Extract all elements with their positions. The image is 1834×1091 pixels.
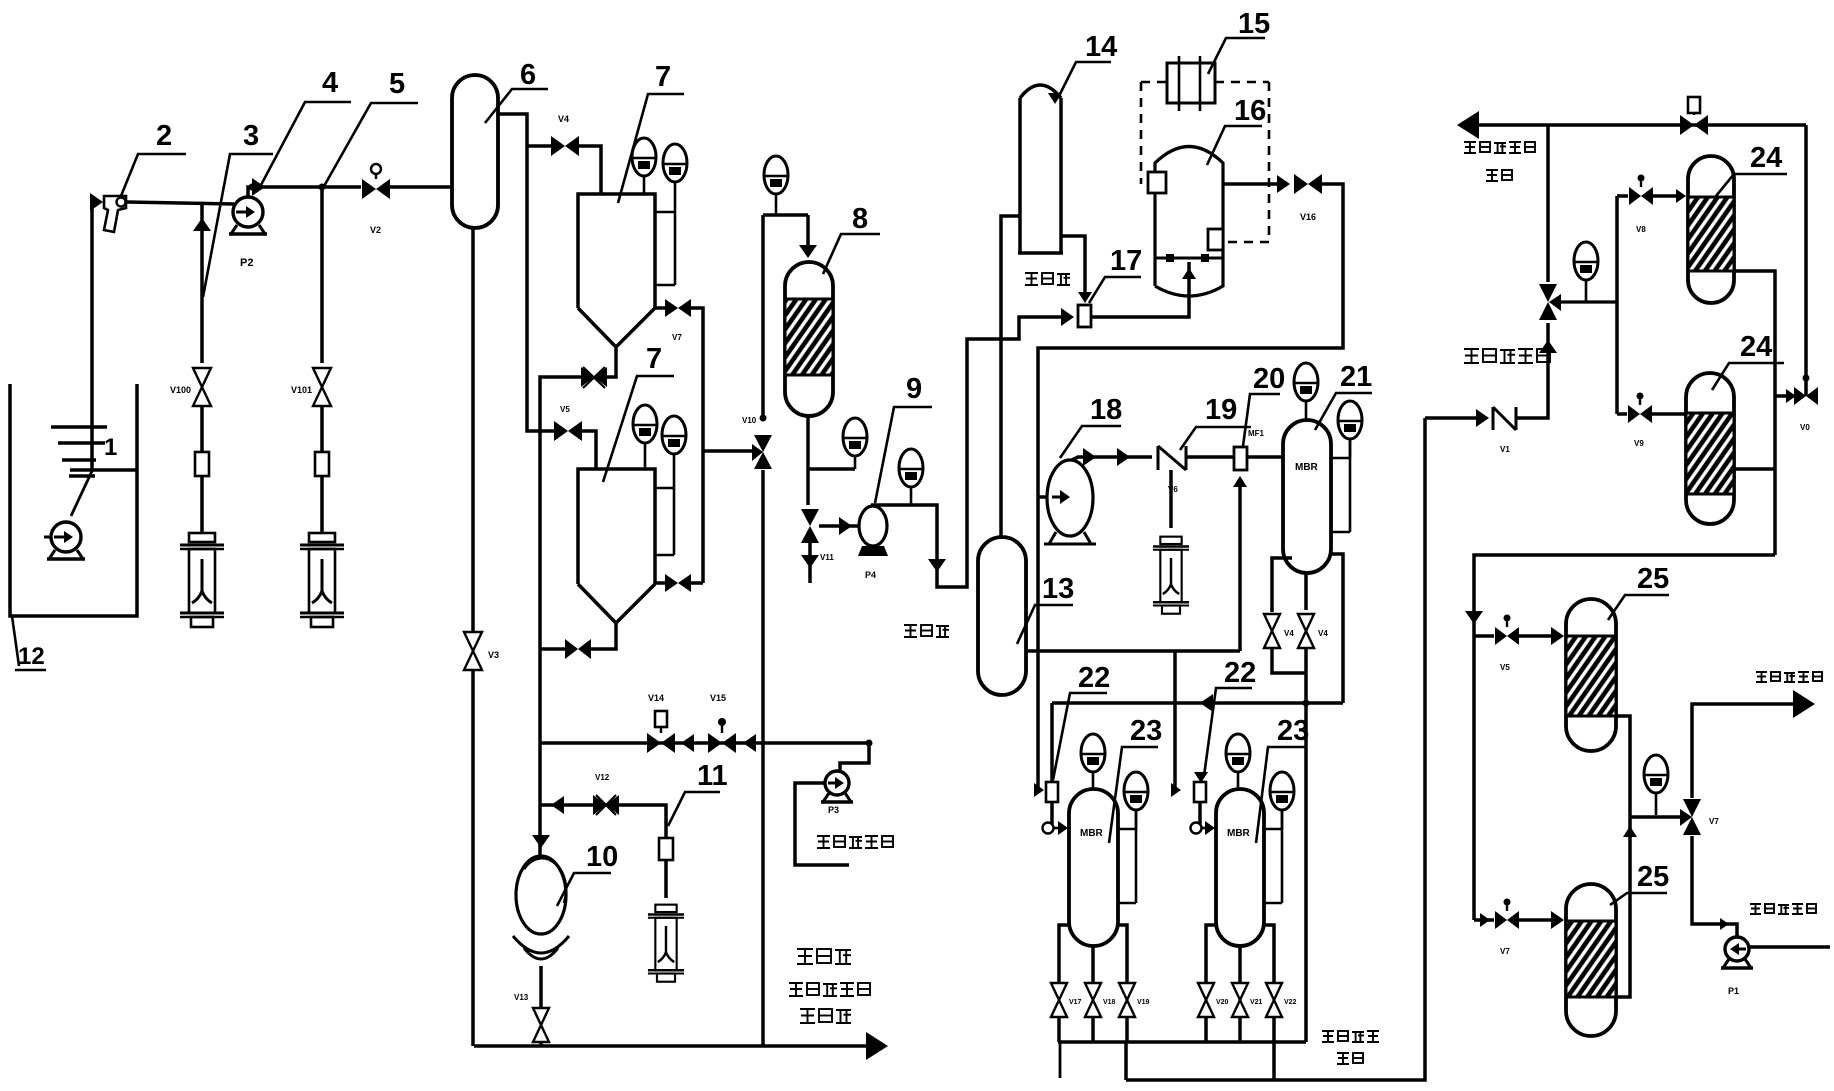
flow arrow down to 25 feed (1465, 611, 1483, 624)
label 10 leader (557, 873, 611, 906)
wire header to transfer line (1124, 1042, 1128, 1080)
svg-text:11: 11 (697, 760, 728, 792)
hopper2 side valve V9 (655, 581, 665, 585)
flow arrow up to distributor (1539, 340, 1557, 353)
svg-text:V100: V100 (170, 385, 191, 395)
label 17 leader (1089, 277, 1141, 303)
dashed enclosure (1141, 82, 1269, 242)
svg-text:V5: V5 (1500, 663, 1510, 672)
wire collector to product valve (1630, 815, 1680, 818)
wire drain below valve (808, 543, 812, 583)
metering pump A (189, 533, 215, 542)
text backwash drain port (789, 982, 803, 996)
svg-text:4: 4 (322, 67, 338, 99)
flow arrow into downcomer (551, 796, 564, 814)
wire pump 10 to drain valve (539, 966, 543, 1007)
wire inlet stub to vessel 14 (1001, 216, 1020, 537)
valve V12 on pump10 branch (593, 795, 606, 815)
svg-text:23: 23 (1277, 715, 1309, 747)
label 15 leader (1208, 38, 1265, 74)
wire header right drop to vessel 8 (806, 215, 810, 248)
pump 18 (recycle pump) (1047, 460, 1093, 536)
wire gauge column hopper2 (673, 488, 676, 555)
check valve 19 (1158, 446, 1186, 470)
valve V18 (1085, 983, 1101, 1000)
wire V21a to collector (1272, 649, 1306, 673)
vessel 16 right port (1208, 229, 1223, 250)
wire dosing drop to metering pump (1169, 470, 1173, 528)
instrument PI on P4 discharge (899, 449, 923, 487)
wire train1 valves to header (1057, 1017, 1061, 1042)
svg-text:24: 24 (1740, 331, 1772, 363)
flow arrow into vessel 16 (1182, 268, 1196, 279)
wire valve to blowdown header (539, 1042, 543, 1046)
pump 9 (P4) (859, 506, 887, 546)
wire vessel 6 bottom drain (471, 228, 475, 632)
three-way product valve 25 (1683, 799, 1701, 817)
injector box 22a (1046, 782, 1058, 802)
valve V28 upper25 inlet (1495, 627, 1507, 645)
three-way distributor valve 24 (1539, 284, 1557, 302)
flow arrow up on collector (1623, 826, 1637, 837)
wire drain to blowdown header (471, 670, 475, 1046)
pump P3 (825, 771, 849, 795)
valve V8 hopper2 bottom (565, 639, 578, 659)
wire gauge column hopper1 (674, 212, 677, 285)
wire tank suction riser (90, 202, 94, 470)
wire 23b bottom risers (1206, 925, 1216, 982)
valve V15 (708, 733, 722, 753)
wire dosing A to damper (200, 406, 204, 452)
instrument PH3 on 23b (1226, 734, 1250, 772)
svg-text:V7: V7 (672, 333, 682, 342)
wire distributor to filter splits (1560, 300, 1617, 303)
backwash outlet line (1462, 123, 1806, 127)
wire branch to damper 11 (618, 805, 666, 838)
wire train2 feed drop (1173, 651, 1177, 790)
svg-text:22: 22 (1224, 657, 1256, 689)
svg-text:12: 12 (18, 643, 45, 670)
wire product line to outlet (1692, 704, 1798, 798)
aeration backwash header (1052, 701, 1343, 704)
filter 24 upper (1688, 156, 1734, 303)
wire check valve to dosing box 20 (1186, 455, 1234, 459)
wire distributor riser to backwash line (1546, 125, 1550, 282)
wire vessel 16 outlet (1223, 182, 1282, 186)
svg-text:10: 10 (586, 841, 618, 873)
bottom collection header (1058, 1040, 1306, 1044)
wire center drain to bottom header (1304, 649, 1308, 1042)
svg-text:V14: V14 (648, 693, 664, 703)
svg-text:V101: V101 (291, 385, 312, 395)
label 24b leader (1712, 363, 1784, 390)
wire lower25 feed (1474, 918, 1494, 922)
diffuser fitting 22a (1043, 823, 1054, 834)
node junction B (319, 184, 326, 191)
label 11 leader (668, 792, 720, 826)
label 6 leader (485, 89, 548, 123)
mixer 17 (1078, 305, 1091, 327)
wire split to upper 24 valve (1617, 194, 1628, 198)
pump 18 inlet (1038, 495, 1049, 499)
vessel 21 (MBR unit) (1283, 420, 1331, 573)
svg-text:V0: V0 (1800, 423, 1810, 432)
label 19 leader (1180, 427, 1251, 450)
valve V13 bottom drain (533, 1008, 549, 1025)
svg-text:P4: P4 (865, 570, 876, 580)
valve V21b (1298, 614, 1314, 631)
svg-text:MBR: MBR (1227, 828, 1251, 839)
label 25b leader (1610, 893, 1667, 905)
svg-text:16: 16 (1234, 95, 1266, 127)
wire dosing B to damper (320, 406, 324, 452)
wire hopper2 side to riser (690, 581, 703, 585)
svg-text:V21: V21 (1250, 999, 1263, 1006)
pump P2 (233, 197, 263, 227)
text water inlet (1025, 272, 1038, 285)
wire valve to pump P4 with arrow (819, 524, 858, 528)
wire mixer 17 to vessel 16 (1091, 262, 1189, 317)
wire tank internal suction (70, 468, 138, 472)
valve V14 (647, 733, 661, 753)
wire dosing line B riser (320, 187, 324, 363)
text filter inlet (1464, 348, 1479, 363)
svg-text:P3: P3 (828, 805, 839, 815)
vessel 6 (static mixer column) (452, 75, 498, 228)
svg-text:V15: V15 (710, 693, 726, 703)
svg-text:14: 14 (1085, 31, 1117, 63)
svg-text:13: 13 (1042, 573, 1074, 605)
text outlet (1486, 169, 1498, 181)
svg-text:V9: V9 (1634, 439, 1644, 448)
wire train1 feed drop (1036, 651, 1040, 790)
svg-text:V20: V20 (1216, 999, 1229, 1006)
wire right drop of backwash line (1804, 125, 1808, 396)
valve V16 (1294, 174, 1308, 194)
hopper 7 upper (clarifier) (578, 194, 655, 308)
text to next process (1322, 1030, 1334, 1042)
svg-text:V17: V17 (1069, 999, 1082, 1006)
text outlet port (904, 624, 917, 637)
label 16 leader (1207, 126, 1262, 165)
valve V29 lower25 inlet (1495, 911, 1507, 929)
valve V26 lower24 inlet (1628, 405, 1640, 423)
vessel 23a (membrane tank) (1069, 789, 1118, 946)
hopper 7 lower (clarifier) (578, 469, 655, 584)
wire side line tee to drain valve (703, 449, 752, 453)
node feed arrow into nozzle (90, 193, 103, 211)
svg-text:6: 6 (520, 59, 536, 91)
flow arrow down on riser (928, 559, 946, 572)
instrument LG on hopper2 with gauge column (662, 416, 686, 454)
hopper1 side valve V7 (655, 306, 665, 310)
tank liquid level lines (51, 425, 107, 429)
valve V20 (1198, 983, 1214, 1000)
node cross junction drain/backwash header (1303, 700, 1310, 707)
filter feed check valve line (1425, 416, 1479, 420)
instrument PI filters24 (1574, 242, 1598, 280)
nozzle 2 (spray gun) (104, 196, 126, 232)
label 23b leader (1256, 747, 1305, 843)
svg-text:V10: V10 (742, 416, 757, 425)
pump 10 (screw pump) (516, 856, 566, 934)
label 22b leader with arrow (1204, 688, 1252, 776)
wire vessel 13 outlet manifold (1026, 649, 1240, 653)
three-way valve to pump P4 (801, 509, 819, 526)
instrument PH on hopper2 (633, 405, 657, 443)
svg-text:V19: V19 (1137, 999, 1150, 1006)
check valve V24 (1493, 407, 1516, 430)
vessel 14 (dosing column) (1018, 98, 1022, 252)
svg-text:V1: V1 (1500, 445, 1510, 454)
svg-text:19: 19 (1205, 394, 1237, 426)
wire outlet to recycle loop (1038, 184, 1343, 651)
svg-text:V7: V7 (1709, 817, 1719, 826)
vessel 16 membrane support line (1155, 257, 1223, 260)
svg-text:V22: V22 (1284, 999, 1297, 1006)
vessel 13 (intermediate tank) (978, 537, 1026, 695)
svg-text:V2: V2 (370, 225, 381, 235)
svg-text:V13: V13 (514, 993, 529, 1002)
svg-text:V4: V4 (558, 114, 569, 124)
label 7 lower leader (603, 376, 674, 482)
metering pump B (309, 533, 335, 542)
valve V6 hopper1 bottom (581, 367, 594, 387)
svg-text:20: 20 (1253, 363, 1285, 395)
svg-text:23: 23 (1130, 715, 1162, 747)
diffuser fitting 22b (1191, 823, 1202, 834)
wire backwash branch with valve V27 (1775, 394, 1788, 398)
wire box 22b to diffuser (1198, 802, 1202, 824)
svg-text:V12: V12 (595, 773, 610, 782)
wire carbon filter header (763, 213, 808, 217)
instrument LG on 23a with column (1124, 772, 1148, 810)
valve V22 (1266, 983, 1282, 1000)
vessel 16 (aeration tank) (1155, 147, 1223, 297)
label 22a leader (1053, 693, 1107, 780)
flow arrow on aeration header (1200, 694, 1213, 712)
wire P2 discharge to main line (248, 187, 361, 197)
svg-text:V4: V4 (1318, 629, 1328, 638)
wire valve to upper 24 (1653, 194, 1683, 198)
wire header left drop to blowdown (761, 215, 765, 418)
wire upper25 feed (1474, 634, 1494, 638)
wire vessel 14 outlet to mixer 17 (1061, 236, 1085, 294)
valve V5 hopper2 inlet (554, 421, 568, 441)
flow arrow above pump 10 (532, 835, 550, 848)
pulsation damper A (195, 452, 209, 476)
label 25a leader (1608, 595, 1669, 620)
svg-text:7: 7 (646, 343, 662, 375)
wire train2 valves to header (1204, 1017, 1208, 1042)
tank 12 walls (10, 384, 137, 616)
label 4 leader (261, 102, 351, 185)
wire instrument tap (808, 467, 855, 471)
label 9 leader (875, 407, 932, 503)
wire box 22a to diffuser (1050, 802, 1054, 824)
flow arrow left of V14 (681, 734, 694, 752)
svg-text:18: 18 (1090, 394, 1122, 426)
wire branch to hopper 1 inlet valve (527, 144, 553, 148)
filter 25 upper (1566, 599, 1616, 751)
svg-text:P2: P2 (240, 257, 253, 269)
valve V25 upper24 inlet (1629, 187, 1641, 205)
wire V4 to hopper 1 (577, 146, 601, 194)
wire valve to lower 25 (1519, 918, 1560, 922)
wire series line 24 to 25 (1474, 555, 1775, 920)
wire stub below header (1059, 1042, 1062, 1078)
metering pump 11 (648, 905, 684, 982)
label 2 leader (121, 154, 186, 196)
wire suction line to pump P2 (126, 202, 234, 204)
wire pump 18 discharge line (1072, 457, 1152, 460)
label 13 leader (1017, 605, 1073, 644)
metering pump 19a (1153, 537, 1189, 614)
instrument PI on product line (1644, 755, 1668, 793)
svg-text:25: 25 (1637, 563, 1669, 595)
svg-text:2: 2 (156, 120, 172, 152)
wire 21 bottom center drain (1304, 573, 1308, 610)
wire header drop into box 22a (1050, 703, 1054, 782)
wire pump10 branch (541, 803, 594, 807)
valve V100 (193, 368, 211, 387)
valve V2 (control) (362, 179, 376, 199)
flow arrow into 17 top (1078, 292, 1092, 303)
wire check valve to distributor (1516, 323, 1548, 418)
valve V17 (1051, 983, 1067, 1000)
label 24a leader (1716, 174, 1787, 196)
svg-text:15: 15 (1238, 8, 1270, 40)
flow arrow into vessel 8 (799, 245, 817, 258)
wire backwash from P1 (1692, 836, 1737, 936)
text treated water out (1756, 671, 1767, 682)
text backwash sewage (1464, 141, 1476, 153)
wire hopper1 cone outlet (607, 345, 616, 377)
valve V101 (313, 368, 331, 387)
flow arrow into mixer 17 (1061, 308, 1074, 326)
wire 21 bottom left drain (1272, 558, 1292, 612)
three-way valve on blowdown (754, 435, 772, 452)
svg-text:MF1: MF1 (1248, 429, 1265, 438)
wire vessel 8 outlet (806, 416, 810, 505)
flow arrow right of V15 (743, 734, 756, 752)
wire P3 discharge (840, 743, 869, 771)
pump 1 (submerged) (44, 536, 52, 539)
svg-text:24: 24 (1750, 142, 1782, 174)
svg-text:9: 9 (906, 373, 922, 405)
wire damper A to metering pump (200, 476, 204, 534)
wire P4 discharge up-over (871, 505, 875, 506)
wire dosing line A riser (200, 202, 204, 363)
valve V3 on drain (464, 632, 482, 651)
wire blowdown to bottom header (761, 470, 765, 1046)
wire upper24 outlet to riser (1734, 271, 1775, 555)
filter 25 lower (1566, 884, 1616, 1036)
svg-text:25: 25 (1637, 861, 1669, 893)
wire 21 side nozzle to aeration header (1331, 554, 1343, 703)
svg-text:V5: V5 (560, 405, 570, 414)
vessel 23b (membrane tank) (1216, 789, 1264, 946)
blowdown header to pond (474, 1044, 876, 1047)
svg-text:V18: V18 (1103, 999, 1116, 1006)
node junction blowdown (760, 415, 767, 422)
svg-text:V4: V4 (1284, 629, 1294, 638)
svg-text:P1: P1 (1728, 986, 1739, 996)
dosing box 20 (1234, 447, 1247, 470)
label 8 leader (823, 234, 880, 274)
instrument PH2 on 23a (1081, 734, 1105, 772)
label 21 leader (1315, 393, 1372, 430)
svg-text:7: 7 (655, 61, 671, 93)
instrument LG on 23b with column (1270, 772, 1294, 810)
vessel 8 media bed (785, 299, 833, 375)
label 3 leader (203, 154, 273, 297)
instrument LG on 21 with column (1338, 401, 1362, 439)
text backwash inlet label (817, 835, 830, 848)
vessel 16 left port (1148, 172, 1166, 193)
filter 25 lower media (1566, 921, 1616, 997)
svg-text:V7: V7 (1500, 947, 1510, 956)
label 14 leader (1058, 62, 1111, 98)
device 15 (UV unit) (1167, 63, 1215, 103)
wire P3 suction (795, 783, 849, 865)
label 23a leader (1109, 747, 1158, 843)
svg-text:17: 17 (1110, 245, 1142, 277)
wire vessel 6 top outlet (497, 114, 555, 431)
svg-text:21: 21 (1340, 361, 1372, 393)
instrument LG on hopper1 with gauge column (663, 144, 687, 182)
pulsation damper B (315, 452, 329, 476)
svg-text:1: 1 (104, 434, 117, 461)
wire side line hopper1 to hopper2 (691, 308, 703, 583)
filter 24 upper media (1688, 197, 1734, 271)
wire V5 to hopper 2 (580, 431, 596, 469)
injector box 22b (1194, 782, 1206, 802)
text drain port (797, 948, 813, 964)
text backwash water in (1750, 903, 1761, 914)
valve V4 hopper1 inlet (551, 136, 565, 156)
instrument PI above carbon filter header (764, 156, 788, 194)
svg-text:5: 5 (389, 68, 405, 100)
wire filter outlets collector (1616, 716, 1630, 997)
label 5 leader (323, 103, 418, 188)
filter 24 lower (1686, 373, 1734, 524)
svg-text:V8: V8 (1636, 225, 1646, 234)
wire valve to upper 25 (1519, 634, 1560, 638)
wire hopper2 outlet to downcomer (540, 647, 565, 651)
wire lower24 outlet tie (1734, 467, 1775, 471)
wire riser into box 20 (1238, 482, 1242, 651)
wire backwash cross line (541, 741, 869, 745)
svg-text:22: 22 (1078, 662, 1110, 694)
valve V21a (1264, 614, 1280, 631)
transfer line to filter feed riser (1126, 418, 1425, 1080)
wire damper to metering pump 11 (664, 860, 668, 898)
label 18 leader (1060, 426, 1121, 458)
filter 25 upper media (1566, 636, 1616, 716)
svg-text:V16: V16 (1300, 212, 1316, 222)
svg-text:3: 3 (243, 120, 259, 152)
svg-text:MBR: MBR (1295, 462, 1319, 473)
wire split to lower 24 valve (1617, 412, 1627, 416)
filter 24 lower media (1686, 413, 1734, 494)
svg-text:8: 8 (852, 203, 868, 235)
flow arrow up dosing A (193, 218, 211, 231)
node junction at P3 riser (866, 740, 873, 747)
wire 23a bottom risers (1059, 925, 1069, 982)
wire V2 to vessel 6 (390, 185, 452, 189)
svg-text:MBR: MBR (1080, 828, 1104, 839)
